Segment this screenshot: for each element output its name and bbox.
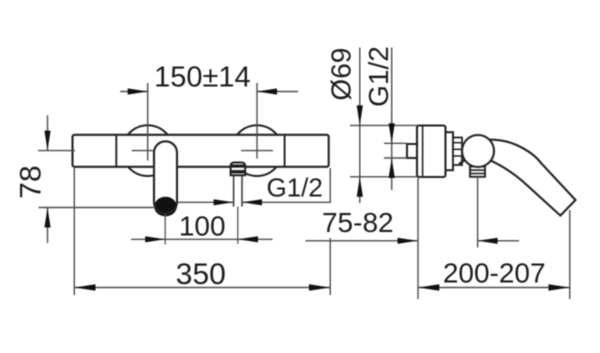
dim Ø69 arrowhead down (357, 105, 363, 125)
dim 75-82 arrowhead left-pointing (478, 238, 498, 244)
dim 78 top reference line (38, 150, 75, 152)
band 2 rib lines (453, 142, 462, 144)
spout centerline (164, 214, 166, 245)
dim 350 ext line left (73, 168, 75, 295)
svg-text:G1/2: G1/2 (363, 46, 394, 107)
dim 200-207 line (418, 287, 570, 289)
svg-text:100: 100 (179, 210, 226, 241)
dim 350 line (74, 287, 330, 289)
dim Ø69 ext line bottom (350, 176, 418, 178)
dim 350 ext line right lower (329, 238, 331, 295)
wall ext line (417, 178, 419, 299)
dim 100 arrowhead right-pointing (145, 236, 165, 242)
svg-text:Ø69: Ø69 (326, 48, 357, 101)
dim 150±14 ext line right (256, 83, 258, 159)
dim 75-82 left shaft (306, 240, 418, 242)
dim 150±14 arrowhead right (257, 88, 277, 94)
svg-text:150±14: 150±14 (154, 62, 251, 94)
G1/2 leader right shaft (242, 201, 330, 203)
spout outlet dark ellipse (154, 197, 177, 217)
svg-text:75-82: 75-82 (322, 207, 394, 238)
G1/2 leader left shaft (178, 201, 234, 203)
mounting circle right (232, 125, 283, 176)
fitting groove bands (231, 165, 245, 168)
svg-text:350: 350 (176, 258, 226, 291)
dim 78 arrowhead down (44, 131, 50, 151)
dim G1/2 line (391, 48, 393, 191)
spout (front, stadium) (154, 141, 177, 213)
thread line left below fitting (233, 175, 235, 206)
outlet fitting lines (470, 166, 485, 168)
dim Ø69 line (359, 48, 361, 204)
dim 75-82 right shaft (478, 240, 519, 242)
dim G1/2 ext line bottom (384, 157, 407, 159)
svg-text:78: 78 (15, 165, 48, 198)
dim G1/2 arrowhead up (389, 158, 395, 178)
svg-text:G1/2: G1/2 (267, 172, 323, 202)
dim 150±14 line right shaft (257, 91, 298, 93)
dim 350 arrowhead left (75, 284, 96, 290)
outlet fitting (side) (470, 162, 485, 177)
G1/2 leader arrowhead right-pointing (214, 199, 234, 205)
bar left cap divider (115, 135, 117, 167)
dim Ø69 arrowhead up (357, 177, 363, 197)
dim 78 lower shaft (47, 208, 49, 244)
dim 150±14 arrowhead left (128, 88, 148, 94)
dim 350 ext line right upper (329, 168, 331, 203)
body band 2 with ribs (453, 138, 462, 166)
spout tip ext line (569, 210, 571, 299)
G1/2 leader arrowhead left-pointing (242, 199, 262, 205)
wedge at knob lower-left (459, 160, 466, 165)
dim 78 arrowhead up (44, 208, 50, 228)
mounting circle left (122, 125, 173, 176)
dim Ø69 ext line top (350, 124, 418, 126)
dim 78 upper shaft (47, 115, 49, 150)
svg-text:200-207: 200-207 (443, 258, 546, 289)
thread line right below fitting (241, 175, 243, 206)
dim G1/2 ext line top (384, 142, 407, 144)
outlet fitting G1/2 (front) (231, 163, 246, 176)
fitting centerline (237, 207, 239, 245)
dim 100 arrowhead left-pointing (238, 236, 258, 242)
spout outline (154, 141, 177, 213)
dim 78 bottom reference line (39, 207, 154, 209)
dim 75-82 arrowhead right-pointing (398, 238, 418, 244)
mixer body bar (73, 135, 329, 167)
escutcheon (417, 126, 446, 178)
dim 200-207 arrowhead right (549, 284, 570, 290)
body band 1 (446, 132, 454, 170)
outlet centerline (side) (477, 177, 479, 248)
dim 150±14 line left shaft (120, 91, 148, 93)
circle crosshair tick left (132, 150, 154, 152)
dim G1/2 arrowhead down (389, 123, 395, 143)
knob circle (462, 135, 494, 167)
circle crosshair tick right (241, 150, 273, 152)
supply fitting square (407, 144, 421, 158)
dim 150±14 ext line left (147, 83, 149, 161)
escutcheon flange line (422, 126, 424, 177)
spout side curved (487, 140, 576, 216)
dim 200-207 arrowhead left (418, 284, 439, 290)
bar right cap divider (284, 135, 286, 167)
dim 100 line (131, 238, 273, 240)
dim 350 arrowhead right (309, 284, 330, 290)
